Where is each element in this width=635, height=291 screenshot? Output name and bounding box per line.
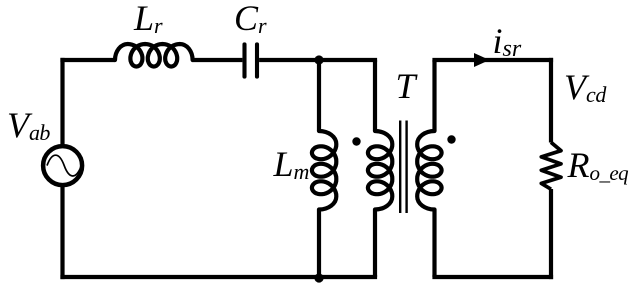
svg-text:Lm: Lm (273, 144, 310, 184)
svg-text:isr: isr (493, 21, 522, 62)
transformer secondary polarity dot (447, 135, 455, 143)
resistor R_o_eq (541, 142, 561, 189)
wire: right rail upper (to R_o_eq) (549, 58, 553, 143)
svg-text:Vab: Vab (7, 105, 50, 145)
wire: bottom secondary-side horizontal (432, 275, 553, 279)
svg-text:Ro_eq: Ro_eq (567, 145, 630, 185)
svg-text:Vcd: Vcd (564, 67, 607, 107)
node: junction dot top (L_m tap) (314, 55, 323, 64)
wire: left rail upper (source top) (60, 58, 64, 146)
wire: L_r to C_r (193, 58, 243, 62)
transformer T secondary winding (417, 131, 441, 210)
wire: bottom primary-side horizontal (60, 275, 377, 279)
svg-text:T: T (396, 66, 419, 106)
source V_ab (sine voltage source) (43, 146, 82, 185)
wire: top-left horizontal (source to L_r) (60, 58, 115, 62)
transformer primary polarity dot (352, 137, 360, 145)
capacitor C_r (245, 44, 258, 76)
wire: transformer secondary lower lead (432, 210, 436, 278)
inductor L_r (115, 44, 193, 67)
wire: right rail lower (549, 189, 553, 279)
arrow: i_sr current direction (474, 53, 490, 67)
wire: transformer secondary upper lead (432, 60, 436, 131)
wire: transformer primary lower lead (373, 210, 377, 278)
wire: C_r to primary top corner, through node (259, 58, 377, 62)
wire: secondary top horizontal with current direction (432, 58, 553, 62)
svg-text:Cr: Cr (234, 0, 267, 38)
wire: L_m lower lead (317, 210, 321, 278)
wire: L_m upper lead (317, 60, 321, 131)
inductor L_m (312, 131, 336, 210)
svg-text:Lr: Lr (133, 0, 163, 38)
wire: left rail lower (source bottom) (60, 185, 64, 279)
transformer T primary winding (368, 131, 392, 210)
wire: transformer primary upper lead (373, 60, 377, 131)
node: junction dot bottom (L_m return) (314, 273, 323, 282)
transformer T core lines (400, 121, 406, 214)
